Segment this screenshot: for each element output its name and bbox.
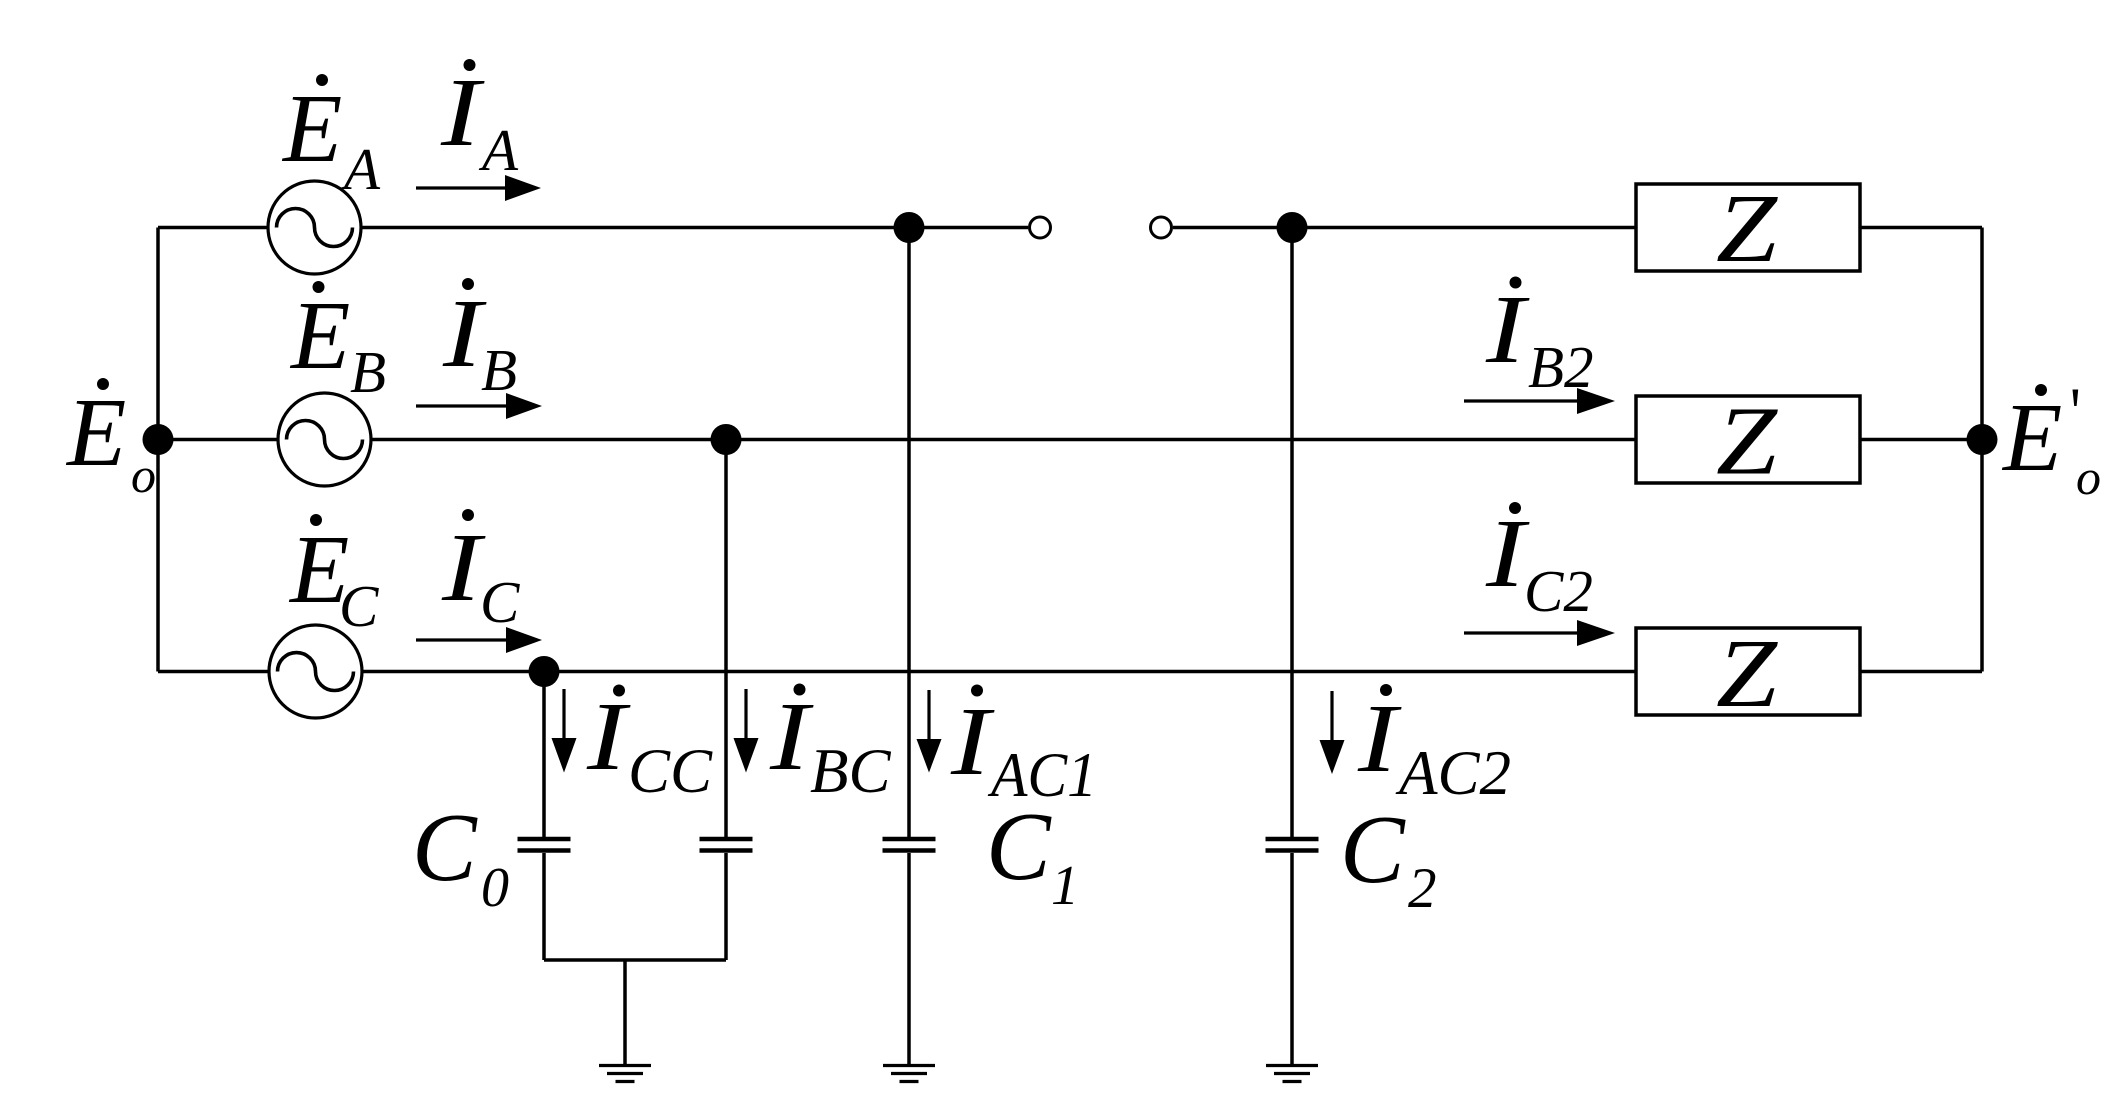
svg-text:AC2: AC2 (1395, 738, 1511, 808)
switch open contact right (1151, 217, 1172, 238)
svg-text:C2: C2 (1524, 558, 1593, 624)
label I_B2 (1485, 276, 1594, 400)
current arrow I_AC2 (down) (1320, 691, 1345, 774)
svg-text:A: A (478, 117, 519, 183)
svg-text:I: I (440, 59, 486, 166)
current arrow I_C2 (1464, 620, 1615, 646)
svg-text:2: 2 (1408, 857, 1437, 920)
svg-text:C: C (1340, 796, 1406, 903)
svg-text:C: C (480, 569, 520, 635)
svg-text:C: C (412, 794, 478, 901)
node dot on phase A (to C1) (894, 212, 925, 243)
wire phase B: bus to source B (158, 438, 278, 442)
current arrow I_B2 (1464, 388, 1615, 414)
wire phase A: Z1 to right bus (1860, 226, 1982, 230)
wire right bus vertical (1980, 228, 1984, 672)
wire phase C: bus to source C (158, 670, 269, 674)
svg-text:C: C (986, 793, 1052, 900)
label C_1 (986, 793, 1079, 917)
impedance box Z (phase B) (1636, 396, 1860, 483)
svg-text:I: I (769, 683, 815, 790)
AC source E_A circle (268, 181, 361, 274)
svg-text:1: 1 (1051, 855, 1079, 917)
wire below C2 to ground (1290, 853, 1294, 1064)
node E_o' dot (1967, 424, 1998, 455)
svg-text:E: E (2001, 384, 2062, 491)
label E_o' (right) (2001, 384, 2101, 505)
label I_AC2 (1357, 684, 1511, 808)
label I_B (442, 278, 517, 403)
wire drop from node on phase C to capacitor C0a (542, 672, 546, 838)
capacitor C0b plates (700, 839, 753, 851)
svg-text:E: E (289, 282, 350, 389)
wire joining C0 pair (544, 958, 726, 962)
svg-text:B2: B2 (1528, 334, 1594, 400)
current arrow I_C (416, 627, 542, 653)
wire below C1 to ground (907, 853, 911, 1064)
svg-text:B: B (350, 339, 386, 405)
current arrow I_A (416, 175, 541, 201)
ground below C2 (1266, 1066, 1318, 1082)
wire phase A: bus to source A (158, 226, 268, 230)
svg-text:I: I (1485, 276, 1531, 383)
label E_C (288, 514, 379, 639)
label I_C (441, 509, 520, 635)
node dot on phase A (to C2) (1277, 212, 1308, 243)
label E_B (289, 281, 386, 405)
impedance box Z (phase A) (1636, 184, 1860, 271)
svg-text:E: E (65, 379, 126, 486)
switch open contact left (1030, 217, 1051, 238)
label E_A (281, 74, 381, 202)
svg-text:I: I (950, 688, 996, 795)
current arrow I_BC (down) (734, 689, 759, 773)
ground below C0 (599, 1066, 651, 1082)
wire phase C: source C to Z3 (362, 670, 1636, 674)
AC source E_C circle (269, 625, 362, 718)
wire left bus vertical (156, 228, 160, 672)
svg-text:A: A (340, 136, 381, 202)
label C_0 (412, 794, 509, 919)
svg-text:I: I (1357, 685, 1403, 792)
wire drop from node on phase B to capacitor C0b (724, 440, 728, 838)
wire phase A: source A to switch left contact (361, 226, 1028, 230)
label I_CC (586, 683, 713, 806)
current arrow I_CC (down) (552, 689, 577, 773)
node dot on phase B (to C0b) (711, 424, 742, 455)
wire below C0a (542, 853, 546, 960)
ground below C1 (883, 1066, 935, 1082)
svg-text:E: E (281, 75, 342, 182)
capacitor C1 plates (883, 839, 936, 851)
svg-text:Z: Z (1716, 175, 1778, 282)
label I_A (440, 59, 519, 183)
label I_AC1 (950, 685, 1097, 811)
wire C0 pair to ground (623, 960, 627, 1064)
label C_2 (1340, 796, 1437, 920)
wire phase B: Z2 to right bus (1860, 438, 1982, 442)
current arrow I_B (416, 393, 542, 419)
node E_o dot (143, 424, 174, 455)
wire below C0b (724, 853, 728, 960)
wire drop from node on phase A to capacitor C1 (907, 228, 911, 838)
wire phase C: Z3 to right bus (1860, 670, 1982, 674)
capacitor C0a plates (518, 839, 571, 851)
capacitor C2 plates (1266, 839, 1319, 851)
impedance box Z (phase C) (1636, 628, 1860, 715)
svg-text:Z: Z (1716, 388, 1778, 495)
svg-text:BC: BC (810, 736, 891, 806)
svg-text:B: B (481, 337, 517, 403)
wire phase A: switch right contact to Z1 (1173, 226, 1636, 230)
svg-text:C: C (339, 573, 379, 639)
svg-text:o: o (2076, 449, 2101, 505)
svg-text:0: 0 (481, 857, 509, 919)
node dot on phase C (to C0a) (529, 656, 560, 687)
svg-text:Z: Z (1716, 620, 1778, 727)
AC source E_B circle (278, 393, 371, 486)
svg-text:CC: CC (628, 736, 713, 806)
label E_o (left) (65, 378, 156, 503)
wire drop from node on phase A to capacitor C2 (1290, 228, 1294, 838)
label I_BC (769, 683, 892, 806)
current arrow I_AC1 (down) (917, 690, 942, 773)
svg-text:I: I (586, 683, 632, 790)
svg-text:o: o (131, 447, 156, 503)
label I_C2 (1485, 500, 1593, 624)
wire phase B: source B to Z2 (371, 438, 1636, 442)
